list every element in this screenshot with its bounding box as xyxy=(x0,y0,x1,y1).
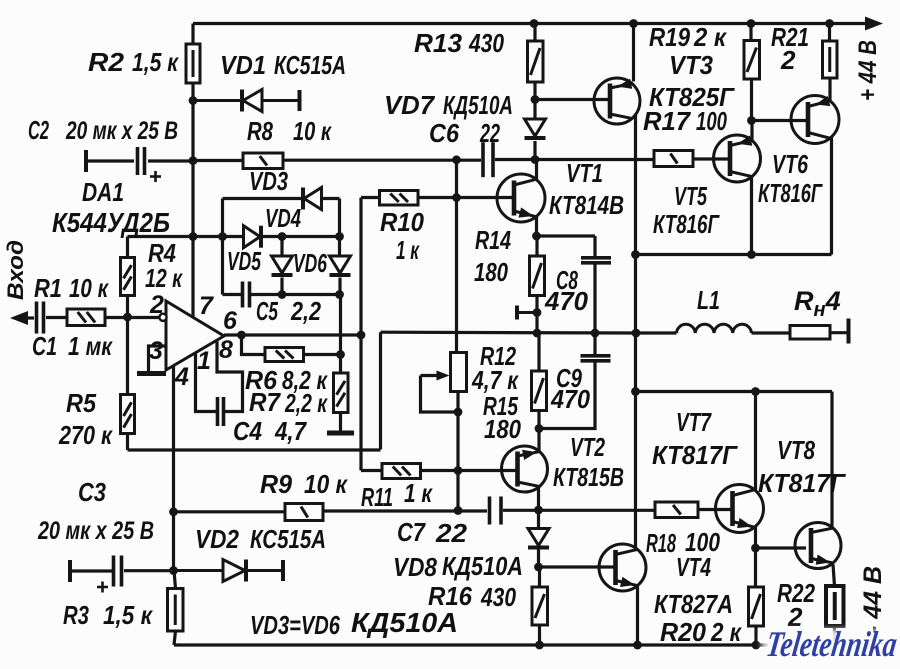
svg-text:R1: R1 xyxy=(34,273,62,303)
wire R21 top lead xyxy=(828,24,831,42)
wire VT7 emitter down xyxy=(754,527,757,548)
svg-text:10 к: 10 к xyxy=(304,469,349,499)
svg-text:R10: R10 xyxy=(380,207,424,237)
wire C2 to supply node xyxy=(148,159,193,162)
svg-text:R7: R7 xyxy=(249,387,281,417)
wire R12 wiper xyxy=(421,376,459,413)
resistor R14 180 xyxy=(530,256,545,296)
svg-text:VD1: VD1 xyxy=(220,50,266,80)
junction dots VT1 emitter node xyxy=(532,232,541,241)
svg-text:470: 470 xyxy=(544,286,589,316)
wire bottom rail -44V xyxy=(174,643,768,646)
pin2 input circle xyxy=(159,314,166,321)
wire VT1 base line xyxy=(457,196,515,199)
svg-text:10 к: 10 к xyxy=(293,116,332,146)
svg-text:20 мк х 25 В: 20 мк х 25 В xyxy=(37,517,154,545)
resistor R2 1.5k xyxy=(186,44,200,83)
diode VD7 KD510A xyxy=(525,119,546,138)
wire VD8 bottom node to R16 xyxy=(538,567,541,587)
svg-text:470: 470 xyxy=(550,384,590,414)
wire C3 to R3 node xyxy=(124,569,174,572)
resistor R19 2k xyxy=(744,41,760,80)
plus sign C2 xyxy=(150,171,161,182)
junction dots 254 line xyxy=(631,250,756,259)
svg-text:7: 7 xyxy=(199,292,214,320)
wire R14 top lead xyxy=(535,236,538,256)
zener VD2 KS515A xyxy=(174,560,284,582)
svg-text:6: 6 xyxy=(223,307,238,335)
svg-text:DA1: DA1 xyxy=(82,177,124,207)
terminal bar output right end xyxy=(847,319,851,344)
svg-text:20 мк х 25 В: 20 мк х 25 В xyxy=(65,117,178,145)
svg-text:12 к: 12 к xyxy=(145,263,183,293)
svg-text:430: 430 xyxy=(468,28,504,58)
svg-text:VD3: VD3 xyxy=(249,166,288,196)
svg-text:КТ827А: КТ827А xyxy=(654,589,733,619)
svg-text:1: 1 xyxy=(197,347,211,375)
wire C6 to VD7 node and R17 xyxy=(495,158,654,161)
svg-text:R13: R13 xyxy=(414,28,463,58)
svg-text:VT4: VT4 xyxy=(676,552,711,582)
ground R7 xyxy=(327,431,354,436)
wire C7/R9 line left xyxy=(174,510,286,513)
svg-text:КД510А: КД510А xyxy=(351,607,458,638)
ground pin3 xyxy=(137,371,166,376)
wire R6 right lead xyxy=(304,353,341,356)
svg-text:С5: С5 xyxy=(256,296,278,326)
capacitor C8 470 xyxy=(581,258,611,263)
wire R16 bottom lead xyxy=(538,625,541,645)
capacitor C1 1uF xyxy=(37,302,44,334)
wire output line feedback riser xyxy=(379,332,382,449)
wire R15 bottom to VT2 emitter xyxy=(537,411,540,452)
svg-text:VD7: VD7 xyxy=(384,90,436,120)
svg-text:КС515А: КС515А xyxy=(250,524,326,554)
wire R15 top lead from output line xyxy=(537,333,540,371)
wire R1 to pin2 node xyxy=(105,316,159,319)
svg-text:180: 180 xyxy=(474,257,508,287)
capacitor C9 470 xyxy=(581,356,611,361)
svg-text:22: 22 xyxy=(435,518,468,548)
wire VD network right vertical lower xyxy=(338,278,341,295)
wire R9 to C7 xyxy=(323,509,487,512)
svg-text:R9: R9 xyxy=(260,469,293,499)
svg-text:1,5 к: 1,5 к xyxy=(103,600,154,630)
svg-text:К544УД2Б: К544УД2Б xyxy=(52,207,170,238)
terminal bar C2 left end xyxy=(84,150,88,172)
capacitor C3 20uF xyxy=(114,556,122,587)
wire R10 left lead xyxy=(361,196,380,199)
svg-text:КТ817Г: КТ817Г xyxy=(652,440,738,470)
wire op-amp output xyxy=(224,333,361,336)
wire R2 bottom lead to VD1 node xyxy=(191,83,194,101)
svg-text:2 к: 2 к xyxy=(693,22,728,52)
wire VD network right vertical to R6 node xyxy=(339,295,342,355)
wire R19 bottom to VT5 emitter node xyxy=(750,79,753,121)
svg-text:С1: С1 xyxy=(32,331,57,361)
svg-text:R11: R11 xyxy=(361,482,393,512)
wire R3 top lead xyxy=(174,571,176,589)
svg-text:R17: R17 xyxy=(643,106,692,136)
svg-text:VD2: VD2 xyxy=(195,524,239,554)
wire VD network center vertical lower xyxy=(280,278,283,295)
capacitor C2 20uF xyxy=(138,147,145,175)
svg-text:R2: R2 xyxy=(88,47,125,77)
wire C7 to VT2-collector node to R18 xyxy=(503,509,655,512)
svg-text:КТ816Г: КТ816Г xyxy=(653,209,720,239)
resistor R1 10k xyxy=(67,309,105,326)
svg-text:VT2: VT2 xyxy=(570,432,605,462)
junction dot R14 tap xyxy=(533,308,542,317)
wire VD network left vertical xyxy=(221,199,224,295)
wire VT8 emitter to R22 xyxy=(833,565,835,587)
transistor VT1 KT814V xyxy=(497,174,545,222)
wire VD network top line xyxy=(223,197,303,200)
transistor VT8 KT817G xyxy=(795,523,841,569)
junction dots R12 column xyxy=(454,408,463,515)
svg-text:КТ816Г: КТ816Г xyxy=(758,178,823,208)
wire R11 left L from output vertical xyxy=(361,469,382,472)
terminal bar C3 left end xyxy=(68,560,72,582)
wire pin8 to C4 right xyxy=(217,341,243,412)
resistor R3 1.5k xyxy=(168,589,184,632)
resistor R11 1k xyxy=(382,464,421,479)
svg-text:R19: R19 xyxy=(649,22,690,52)
transistor VT7 KT817G xyxy=(716,485,764,533)
terminal stub tap near R14 xyxy=(517,306,537,320)
wire output to R6 left xyxy=(242,335,266,355)
svg-text:КД510А: КД510А xyxy=(443,90,513,120)
svg-text:1 к: 1 к xyxy=(404,478,433,508)
svg-text:1 мк: 1 мк xyxy=(68,331,113,361)
svg-text:100: 100 xyxy=(696,106,727,136)
wire feedback line to R5 xyxy=(128,448,381,451)
svg-text:22: 22 xyxy=(479,118,500,148)
resistor R21 2 xyxy=(823,41,838,78)
svg-text:КС515А: КС515А xyxy=(274,50,346,80)
wire R19 top lead xyxy=(749,24,752,41)
junction dot VT7 emitter xyxy=(751,544,760,553)
svg-text:R8: R8 xyxy=(247,116,273,146)
top rail arrow to +44V xyxy=(865,17,883,31)
svg-text:КД510А: КД510А xyxy=(442,551,523,581)
svg-text:2: 2 xyxy=(149,291,164,319)
junction dots 391 line xyxy=(631,387,760,396)
svg-text:10 к: 10 к xyxy=(69,273,109,303)
wire R2 top lead from rail xyxy=(191,24,194,45)
junction dots R8/C6 line xyxy=(452,95,539,164)
wire L1 to Rn4 xyxy=(752,331,791,334)
svg-text:VD8: VD8 xyxy=(393,552,437,582)
svg-text:8: 8 xyxy=(219,336,233,364)
wire output line xyxy=(381,331,677,335)
resistor R10 1k xyxy=(380,191,419,206)
resistor R18 100 xyxy=(655,502,698,518)
wire C9 top from output line xyxy=(593,333,596,354)
wire VT7 emitter node to VT8 base xyxy=(756,546,807,549)
wire VD7 leads xyxy=(533,100,536,160)
transistor VT6 KT816G xyxy=(791,96,839,144)
resistor R15 180 xyxy=(532,371,547,411)
wire VT2 base line xyxy=(458,469,518,472)
wire VD network right vertical upper xyxy=(338,199,341,257)
wire output bus vertical VT3-collector to VT4-collector xyxy=(634,115,637,549)
wire R7 top lead xyxy=(339,355,342,374)
svg-text:Вход: Вход xyxy=(3,240,28,300)
wire R21 bottom to VT6 emitter xyxy=(828,78,831,102)
resistor R12 4.7k potentiometer xyxy=(451,353,467,392)
svg-text:R14: R14 xyxy=(475,225,511,255)
plus sign C3 xyxy=(97,582,108,593)
svg-text:VT1: VT1 xyxy=(566,158,603,188)
svg-text:L1: L1 xyxy=(697,285,720,315)
wire C1 to R1 xyxy=(46,316,67,319)
wire R17 to VT5 base xyxy=(693,157,730,160)
svg-text:4: 4 xyxy=(174,363,189,391)
wire vertical R10-left to output line to R11 xyxy=(359,198,362,471)
resistor R7 2.2k xyxy=(334,373,349,413)
wire R5 top lead xyxy=(126,317,129,395)
wire VD network top line right xyxy=(322,197,340,200)
wire VD network middle line right part xyxy=(262,235,340,238)
zener VD1 KS515A xyxy=(193,90,300,112)
wire VT1 emitter node to C8 branch xyxy=(537,236,596,256)
wire Rn4 to output terminal xyxy=(830,331,848,334)
wire R5 bottom lead xyxy=(126,434,129,451)
svg-text:VT3: VT3 xyxy=(669,50,713,80)
resistor R16 430 xyxy=(532,587,548,625)
wire VD network center vertical upper xyxy=(280,237,283,257)
R12 wiper arrowhead xyxy=(437,371,450,381)
svg-text:R20: R20 xyxy=(660,617,707,647)
resistor R13 430 xyxy=(528,41,544,82)
wire VT7 collector up xyxy=(754,392,757,491)
capacitor C5 2.2 xyxy=(243,282,250,308)
junction dots VT1 base line xyxy=(452,193,461,202)
transistor VT2 KT815V xyxy=(502,446,548,492)
wire R8 to C6 xyxy=(283,159,481,162)
wire +44V top rail xyxy=(193,22,866,25)
wire R20 top lead xyxy=(754,548,757,587)
wire R20 bottom lead xyxy=(754,626,757,645)
wire R12 wiper stem xyxy=(421,374,441,377)
wire VT1 emitter/collector leads xyxy=(535,160,538,236)
wire VD network bottom line xyxy=(223,293,242,296)
junction dots bottom rail xyxy=(535,641,760,650)
wire op-amp minus-rail vertical pin4/C3 xyxy=(172,366,175,571)
capacitor C4 4.7 xyxy=(218,397,224,426)
junction dots VD8 node xyxy=(534,563,543,572)
svg-text:VD4: VD4 xyxy=(265,203,301,233)
svg-text:1 к: 1 к xyxy=(396,235,420,265)
svg-text:2,2: 2,2 xyxy=(290,296,321,326)
diode VD8 KD510A xyxy=(528,529,549,548)
resistor R4 12k xyxy=(121,258,135,296)
wire R22 bottom lead xyxy=(833,626,836,641)
wire R8 line C2-node to R8 xyxy=(193,159,243,162)
wire pin3 to ground xyxy=(149,346,167,371)
wire R10 right lead xyxy=(418,196,457,199)
resistor R20 2k xyxy=(749,587,764,626)
resistor R5 270k xyxy=(121,395,135,434)
wire R11 right lead xyxy=(421,469,459,472)
transistor VT3 KT825G xyxy=(594,78,640,124)
junction dots op-amp output xyxy=(237,331,365,340)
wire VT6 base line xyxy=(752,119,808,122)
junction dots VT5 emitter node xyxy=(747,116,756,125)
diode VD3 xyxy=(303,188,322,210)
wire 254-line collector bus top half xyxy=(636,253,832,256)
wire VT6 collector down to 254-line xyxy=(830,137,833,255)
wire VT3 emitter to rail xyxy=(632,24,635,82)
wire R4 bottom lead xyxy=(126,296,129,318)
inductor L1 xyxy=(677,324,752,333)
wire vertical C6-node to R12 top xyxy=(455,160,458,353)
wire VT4 emitter to bottom rail xyxy=(636,587,639,646)
svg-text:430: 430 xyxy=(480,582,516,612)
wire C8 bottom to output line xyxy=(593,264,596,333)
junction dot R6 right xyxy=(336,350,345,359)
wire R13 top lead xyxy=(533,24,536,42)
junction dots output line xyxy=(533,329,641,338)
wire pin1 to C4 left xyxy=(196,354,217,412)
svg-text:Teletehnika: Teletehnika xyxy=(764,624,900,664)
wire VT5 collector down to 254-line xyxy=(750,177,753,255)
resistor Rn 4 load xyxy=(790,326,830,340)
wire 391-line collector bus bottom half xyxy=(636,390,833,393)
svg-text:3: 3 xyxy=(149,337,163,365)
wire R18 to VT7 base xyxy=(698,508,733,511)
junction dots minus rail node xyxy=(169,566,178,575)
wire VD8 leads xyxy=(537,510,540,567)
diode VD5 vertical xyxy=(272,256,293,275)
svg-text:С3: С3 xyxy=(78,477,106,507)
svg-text:180: 180 xyxy=(484,414,521,444)
junction dots supply vertical xyxy=(189,96,198,241)
wire VT3 base xyxy=(535,98,610,101)
svg-text:С6: С6 xyxy=(429,118,459,148)
op-amp DA1 K544UD2B xyxy=(166,301,224,370)
svg-text:VT5: VT5 xyxy=(674,181,707,211)
wire VT2 collector down to C7 line xyxy=(537,488,540,511)
resistor R17 100 xyxy=(654,151,693,167)
svg-text:2 к: 2 к xyxy=(710,617,742,647)
resistor R8 10k xyxy=(243,153,283,169)
wire supply vertical R2/C2/pin7 xyxy=(191,101,194,318)
svg-text:2,2 к: 2,2 к xyxy=(284,388,328,418)
junction dots top rail xyxy=(530,19,834,28)
wire R3 bottom lead xyxy=(174,631,176,645)
wire C2 left stub xyxy=(86,159,134,162)
svg-text:1,5 к: 1,5 к xyxy=(132,47,179,77)
svg-text:+ 44 В: + 44 В xyxy=(854,40,882,101)
input arrowhead xyxy=(10,311,28,325)
svg-text:С7: С7 xyxy=(397,517,426,547)
diode VD6 vertical xyxy=(330,256,351,275)
svg-text:R5: R5 xyxy=(66,388,96,418)
junction dots VD network xyxy=(218,232,344,299)
svg-text:VD3=VD6: VD3=VD6 xyxy=(250,610,340,640)
wire R12 bottom vertical xyxy=(456,392,459,511)
svg-text:КТ814В: КТ814В xyxy=(549,190,624,220)
svg-text:VT7: VT7 xyxy=(676,407,712,437)
svg-text:270 к: 270 к xyxy=(58,420,113,450)
transistor VT4 KT827A xyxy=(599,544,646,591)
diode VD4 xyxy=(244,226,262,248)
resistor R6 8.2k xyxy=(265,348,304,362)
svg-text:4,7: 4,7 xyxy=(274,416,307,446)
svg-text:R18: R18 xyxy=(646,528,676,558)
svg-text:R3: R3 xyxy=(63,600,89,630)
wire C3 left stub xyxy=(70,569,112,572)
wire R13 bottom to VT3 base node xyxy=(533,82,536,100)
svg-text:КТ815В: КТ815В xyxy=(553,462,624,492)
svg-text:2: 2 xyxy=(780,45,796,75)
wire C9 bottom L to R15 node xyxy=(539,362,595,429)
wire input to C1 xyxy=(24,316,34,319)
wire VT4 base line xyxy=(539,565,616,568)
watermark glow xyxy=(762,629,900,665)
svg-text:R16: R16 xyxy=(428,581,472,611)
svg-text:VT6: VT6 xyxy=(772,149,808,179)
capacitor C6 22 xyxy=(483,142,493,177)
wire VD network middle line xyxy=(128,235,244,238)
transistor VT5 KT816G xyxy=(714,135,761,182)
wire VT8 collector up xyxy=(830,392,833,527)
svg-text:VT8: VT8 xyxy=(777,435,815,465)
svg-text:VD5: VD5 xyxy=(227,246,261,276)
junction dot R4 input node xyxy=(123,313,132,322)
wire R4 top lead xyxy=(126,237,129,258)
capacitor C7 22 xyxy=(490,497,502,525)
wire R7 to ground xyxy=(339,413,342,432)
resistor R22 2 xyxy=(826,586,844,626)
wire R14 bottom lead with tap xyxy=(535,296,538,334)
svg-text:VD6: VD6 xyxy=(293,248,327,278)
resistor R9 10k xyxy=(285,504,323,521)
svg-text:С2: С2 xyxy=(28,115,49,145)
svg-text:КТ817Г: КТ817Г xyxy=(758,468,846,498)
junction dots C7 line xyxy=(169,424,543,516)
wire VT5 emitter vertical xyxy=(750,121,753,141)
svg-text:С4: С4 xyxy=(233,416,262,446)
wire VD network bottom line right xyxy=(251,293,340,296)
